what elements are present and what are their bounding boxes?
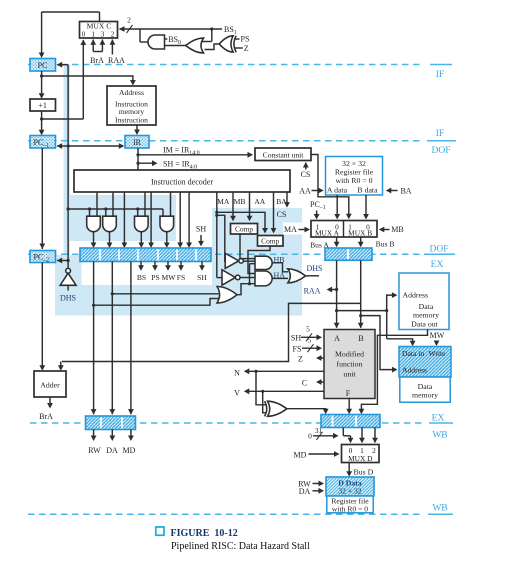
wire: MUX A output Bus A into EX pipeline register — [336, 237, 338, 246]
wire: AND gate output riser to select bus — [139, 29, 141, 42]
wire: BS tap to stall OR gate — [92, 304, 95, 307]
highlight block: DHS inverter area — [55, 255, 82, 302]
wire: Bus B to adder (branch offset) — [62, 303, 361, 361]
svg-text:WB: WB — [432, 431, 447, 441]
wire: PC to +1 with branch to instruction memory — [41, 71, 43, 97]
svg-text:Instruction: Instruction — [115, 116, 148, 125]
svg-text:31: 31 — [315, 427, 323, 435]
svg-text:MUX C: MUX C — [87, 22, 112, 31]
wire: constant unit output to MUX B input 1 — [311, 155, 349, 218]
svg-text:MB: MB — [234, 197, 246, 206]
svg-text:2: 2 — [127, 16, 131, 25]
wire: zero fill 0 / 31 into MUX D input 0 — [342, 428, 344, 436]
wire: comparator 2 output to HA gate — [248, 246, 270, 274]
inverter 1 (MB) — [225, 253, 239, 268]
svg-text:Z: Z — [244, 44, 249, 53]
or gate (branch select, faces left) — [186, 38, 204, 53]
svg-text:FS: FS — [177, 273, 185, 282]
wire: data out to WB pipeline register — [361, 330, 427, 413]
svg-text:MA: MA — [217, 197, 230, 206]
svg-text:PC: PC — [38, 61, 48, 70]
wire: comparator 1 output to HB gate — [240, 234, 255, 259]
stage boundary IF/DOF (dashed) — [28, 140, 424, 142]
highlight block: decoder AND gates — [65, 195, 177, 241]
stage boundary WB (dashed) — [28, 513, 424, 515]
svg-text:V: V — [234, 388, 240, 397]
and gate HB — [255, 256, 272, 269]
xor gate (PS, Z - faces left) — [219, 36, 233, 52]
svg-text:EX: EX — [432, 414, 445, 424]
svg-text:WB: WB — [432, 504, 447, 514]
register PC — [30, 59, 56, 72]
wire stub CS (below BA) — [286, 192, 288, 206]
svg-text:0: 0 — [82, 31, 86, 39]
wire: MA into inverter 2 — [217, 277, 222, 279]
svg-text:Write: Write — [429, 349, 447, 358]
wire: MUX B output Bus B into EX pipeline register — [360, 237, 362, 246]
pipeline register DOF/EX (control) — [80, 248, 211, 262]
svg-text:F: F — [346, 389, 351, 398]
and gate (stall gating 4) — [160, 216, 174, 232]
svg-text:Modified: Modified — [335, 350, 364, 359]
svg-text:A data: A data — [327, 186, 348, 195]
and gate (stall gating 3) — [135, 216, 149, 232]
or gate (load/branch in progress) — [217, 287, 237, 304]
svg-text:MD: MD — [123, 446, 136, 455]
svg-text:MUX A: MUX A — [315, 229, 340, 238]
stage boundary DOF/EX (dashed) — [28, 253, 422, 255]
svg-text:Data in: Data in — [402, 349, 424, 358]
svg-text:MB: MB — [391, 225, 403, 234]
svg-text:Address: Address — [403, 291, 429, 300]
highlight band: stall control path (vertical) — [64, 64, 71, 257]
svg-text:with R0 = 0: with R0 = 0 — [335, 176, 372, 185]
wire: B data to MUX B input 0 — [365, 195, 367, 218]
svg-text:Comp: Comp — [235, 225, 253, 234]
adder (branch address) — [34, 371, 66, 397]
svg-text:Z: Z — [298, 354, 303, 363]
svg-text:MA: MA — [284, 225, 297, 234]
and gate (stall gating 1) — [87, 216, 101, 232]
wire: BrA to MUX C inputs 1 and 3 — [92, 40, 94, 52]
wire stub PS — [235, 38, 240, 40]
wires: decoder outputs to stall AND gates — [96, 192, 98, 216]
register file 32x32 — [326, 157, 383, 196]
svg-text:2: 2 — [372, 446, 376, 455]
svg-text:Instruction decoder: Instruction decoder — [151, 177, 213, 186]
stage boundary EX/WB (dashed) — [30, 422, 424, 424]
svg-text:BrA: BrA — [90, 56, 104, 65]
svg-text:SH: SH — [197, 273, 207, 282]
comparator Comp 2 — [258, 236, 284, 247]
wire stub to BS0 — [165, 38, 168, 40]
wire: stall enable into PC-2 — [57, 260, 68, 262]
pipeline register EX (Bus A / Bus B) — [325, 248, 372, 260]
svg-text:Bus D: Bus D — [354, 468, 374, 477]
svg-text:IR: IR — [133, 138, 142, 147]
wire: Bus A to data memory address and data in — [337, 310, 387, 312]
wire: inverter 2 output to HA — [240, 277, 255, 279]
wire: stall control vertical — [67, 65, 69, 269]
wire: IM field to constant unit — [138, 154, 252, 156]
svg-text:BrA: BrA — [39, 412, 53, 421]
svg-text:SH: SH — [196, 225, 206, 234]
svg-text:1: 1 — [92, 31, 96, 39]
svg-text:memory: memory — [413, 311, 439, 320]
wire: data memory out to MUX D input 2 — [374, 428, 376, 442]
svg-text:with R0 = 0: with R0 = 0 — [332, 504, 368, 513]
wire: stall enable into PC — [57, 64, 68, 66]
wire: A data to MUX A input 0 — [336, 195, 338, 218]
wire: stall OR output rise to HB input — [249, 264, 251, 284]
svg-text:DA: DA — [106, 446, 118, 455]
svg-text:2: 2 — [111, 31, 115, 39]
wire: OR output to AND input — [165, 45, 186, 47]
register file write port (D) — [326, 477, 374, 496]
svg-text:BS: BS — [137, 273, 146, 282]
wire: HA output to DHS OR gate — [272, 277, 288, 279]
svg-text:MW: MW — [162, 273, 177, 282]
xor gate (N, V overflow branch) — [268, 401, 287, 416]
svg-text:B data: B data — [357, 186, 378, 195]
incrementer +1 — [30, 99, 56, 111]
constant unit — [255, 148, 311, 161]
wire: RAA to MUX C input 2 — [111, 40, 113, 55]
svg-text:DOF: DOF — [429, 245, 448, 255]
register PC-1 — [30, 136, 56, 149]
wire: instruction memory to IR — [136, 125, 138, 134]
svg-text:Comp: Comp — [261, 237, 279, 246]
svg-text:Address: Address — [119, 88, 144, 97]
register IR — [125, 136, 149, 149]
svg-text:+1: +1 — [38, 101, 47, 110]
wire: Bus B down to function unit input B — [360, 260, 362, 328]
and gate (stall gating 2) — [103, 216, 117, 232]
svg-text:Pipelined RISC: Data Hazard St: Pipelined RISC: Data Hazard Stall — [171, 541, 310, 552]
svg-text:RW: RW — [88, 446, 101, 455]
wires: control fields BS PS MW FS SH out of pipeline register — [140, 262, 142, 270]
wire: inverter 1 output to HB — [243, 260, 254, 262]
svg-text:Bus B: Bus B — [376, 239, 395, 248]
mux MUX D — [342, 445, 380, 463]
highlight strip: stall signal routing — [55, 285, 302, 316]
svg-text:IF: IF — [436, 70, 444, 80]
wire: CS into constant unit — [305, 163, 307, 170]
svg-text:DA: DA — [299, 487, 311, 496]
svg-text:MUX D: MUX D — [348, 454, 373, 463]
caption square — [156, 527, 164, 535]
svg-text:A: A — [334, 334, 340, 343]
mux MUX A and MUX B — [311, 221, 377, 238]
data memory (read port) — [399, 273, 449, 330]
wire stub DHS output — [306, 275, 319, 277]
wire: incremented PC to MUX C input 0 — [82, 40, 84, 119]
modified function unit — [324, 330, 375, 399]
wire: stall OR output to HA — [237, 284, 255, 295]
svg-text:0: 0 — [308, 432, 312, 441]
wire: PC-2 to adder — [41, 263, 43, 370]
svg-text:B: B — [358, 334, 363, 343]
svg-text:N: N — [234, 368, 240, 377]
svg-text:C: C — [302, 378, 307, 387]
svg-text:5: 5 — [308, 337, 312, 345]
inverter DHS (stall, points up) — [60, 273, 76, 285]
svg-text:MW: MW — [430, 331, 445, 340]
pipeline register EX/WB (result) — [321, 415, 380, 428]
wire: XOR output to OR input — [205, 44, 220, 50]
wire: F output into WB pipeline register — [348, 399, 350, 413]
wire: Bus B to data memory write address — [359, 314, 362, 317]
svg-text:Data out: Data out — [411, 320, 438, 329]
svg-text:CS: CS — [301, 170, 311, 179]
svg-text:DHS: DHS — [60, 293, 76, 302]
wire stub DHS into inverter — [67, 285, 69, 290]
svg-text:Address: Address — [402, 366, 427, 375]
wires: gated controls to pipeline register — [93, 232, 95, 247]
wire: Bus A down to function unit input A — [336, 260, 338, 328]
wire: HB output to DHS OR gate — [272, 263, 288, 272]
wires: RW DA MD out of WB register — [93, 430, 95, 440]
mux MUX C — [80, 22, 118, 39]
stage boundary IF (dashed) — [28, 64, 424, 66]
wire: MUX D output Bus D — [348, 463, 350, 476]
wire: stall enable to PC-1 and IR — [57, 145, 68, 147]
wire: stall gating line from DHS inverter — [68, 208, 163, 210]
instruction memory — [107, 86, 156, 125]
wire: BS1 riser to OR gate — [211, 29, 213, 42]
wires: decoder address fields MA MB AA BA — [216, 192, 218, 278]
svg-text:IF: IF — [436, 129, 444, 139]
wire: 2-bit branch select bus into MUX C — [120, 28, 223, 30]
svg-text:32 × 32: 32 × 32 — [338, 487, 361, 496]
svg-text:5: 5 — [306, 326, 310, 334]
data memory (write port, hazard highlighted) — [399, 347, 451, 378]
svg-text:function: function — [337, 360, 363, 369]
wire: F result to MUX D input 1 — [361, 428, 363, 442]
svg-text:SH: SH — [291, 333, 301, 342]
svg-text:DHS: DHS — [307, 264, 323, 273]
svg-text:3: 3 — [101, 31, 105, 39]
wires: RW DA MD control lines down to WB register — [93, 262, 95, 415]
and gate (branch select, faces left) — [148, 35, 165, 49]
register PC-2 — [30, 251, 56, 263]
svg-text:BA: BA — [400, 187, 411, 196]
svg-text:unit: unit — [343, 370, 356, 379]
svg-text:PS: PS — [151, 273, 159, 282]
instruction decoder — [74, 170, 290, 192]
wire: +1 to PC-1 — [41, 111, 43, 134]
svg-text:DOF: DOF — [431, 146, 450, 156]
wires: decoder outputs direct to pipeline register — [123, 192, 125, 247]
wire stub: adder output BrA — [49, 397, 51, 407]
svg-text:FS: FS — [293, 344, 302, 353]
wire: MB into inverter 1 — [217, 215, 225, 261]
svg-text:Constant unit: Constant unit — [263, 150, 305, 159]
wire: Bus A tap to RAA — [328, 289, 337, 291]
svg-text:PS: PS — [241, 35, 250, 44]
pipeline register WB (RW DA MD) — [86, 416, 136, 430]
svg-text:AA: AA — [299, 187, 311, 196]
svg-text:AA: AA — [254, 197, 265, 206]
wire: IR to instruction decoder — [137, 148, 139, 170]
wire stub Z — [235, 47, 243, 49]
highlight block: hazard comparators and gates — [212, 208, 302, 316]
wire stub: SH field — [138, 162, 156, 164]
svg-text:MUX B: MUX B — [348, 229, 372, 238]
svg-text:CS: CS — [277, 210, 287, 219]
svg-text:RAA: RAA — [108, 56, 125, 65]
comparator Comp 1 — [231, 224, 258, 235]
svg-text:RAA: RAA — [304, 286, 321, 295]
wire: PC to instruction memory address — [42, 76, 133, 84]
or gate DHS — [288, 269, 306, 283]
and gate HA — [255, 271, 272, 286]
svg-text:MD: MD — [294, 450, 307, 459]
svg-text:memory: memory — [412, 391, 438, 400]
wire: PC-1 to PC-2 — [41, 148, 43, 249]
svg-text:Adder: Adder — [40, 380, 60, 389]
wire: XOR output into WB pipeline register — [287, 409, 326, 413]
wire: MUX C output to PC — [99, 12, 101, 22]
wire: MW tap to stall OR gate — [111, 292, 114, 295]
svg-text:EX: EX — [431, 260, 444, 270]
inverter 2 (MA) — [222, 270, 235, 286]
svg-text:FIGURE 10-12: FIGURE 10-12 — [171, 528, 238, 539]
